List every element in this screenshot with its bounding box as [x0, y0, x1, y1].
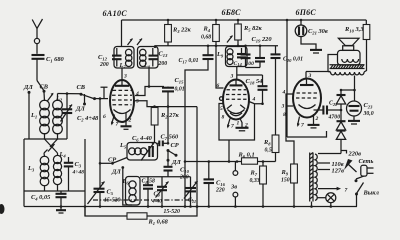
svg-text:3: 3 — [230, 74, 234, 80]
wire ДЛ contact down — [28, 94, 30, 140]
svg-text:4: 4 — [252, 97, 256, 103]
svg-text:4: 4 — [282, 90, 286, 96]
switch SA2 (СВ/ДЛ) — [75, 84, 96, 113]
svg-text:C7 560: C7 560 — [161, 134, 180, 142]
svg-text:C1 680: C1 680 — [46, 56, 65, 64]
svg-text:R1 0,68: R1 0,68 — [148, 219, 169, 227]
svg-text:C4 0,05: C4 0,05 — [31, 194, 51, 202]
wire coil box top — [24, 138, 67, 140]
capacitor C4 — [31, 191, 67, 213]
band crossover wires — [44, 139, 58, 153]
oscillator box L5 C6 — [127, 143, 158, 161]
svg-text:7: 7 — [345, 188, 348, 194]
power transformer core — [310, 153, 313, 208]
svg-text:7: 7 — [116, 122, 119, 128]
coil L7 — [119, 49, 132, 69]
svg-text:2: 2 — [244, 123, 248, 129]
node dot C2 top — [66, 92, 69, 95]
svg-text:C14: C14 — [234, 61, 243, 67]
coil L2 — [53, 94, 63, 140]
electrolytic C21 — [295, 19, 328, 53]
svg-text:0,01: 0,01 — [175, 87, 185, 93]
coil L4 — [53, 151, 66, 191]
wire L2 top node — [58, 93, 82, 95]
svg-text:R3 22к: R3 22к — [172, 27, 192, 35]
trimmer capacitor C3 — [64, 157, 84, 191]
edge smudge — [0, 204, 5, 214]
resistor R6 — [237, 152, 276, 165]
capacitor C20 — [271, 46, 304, 63]
pickup jacks Зв — [230, 162, 238, 208]
wire СВ contact to L1 — [43, 93, 46, 102]
svg-text:220в: 220в — [348, 151, 362, 158]
svg-text:5: 5 — [136, 99, 139, 105]
tank box L7 C12 — [114, 47, 134, 69]
capacitor C12 — [98, 48, 122, 68]
voice coil feed wire — [328, 55, 338, 72]
tap 127в — [318, 168, 344, 175]
loudspeaker — [338, 38, 361, 65]
svg-text:200: 200 — [179, 175, 189, 181]
svg-text:4÷48: 4÷48 — [72, 170, 85, 176]
svg-text:15-520: 15-520 — [164, 209, 181, 215]
tube V3 6П6С — [281, 72, 322, 129]
capacitor C19a — [241, 36, 273, 68]
variable capacitor C5 — [88, 182, 121, 208]
wire V3 grid to R9 — [286, 94, 294, 164]
resistor R9 — [281, 164, 298, 208]
svg-text:6: 6 — [103, 114, 106, 120]
svg-text:6А10С: 6А10С — [103, 9, 128, 18]
svg-text:100: 100 — [246, 61, 255, 67]
svg-text:7: 7 — [231, 124, 234, 130]
voltage selector arrow — [344, 159, 353, 170]
wire V1 pin4 to C15 — [135, 87, 164, 96]
capacitor C13 — [149, 48, 169, 67]
svg-text:1: 1 — [237, 121, 240, 127]
screen node wire — [216, 45, 278, 47]
svg-text:220: 220 — [215, 188, 225, 194]
wire V2 pin4 — [249, 102, 263, 104]
capacitor C14 — [234, 48, 255, 67]
svg-text:ДЛ: ДЛ — [75, 106, 85, 113]
switch Выкл — [355, 176, 380, 206]
resistor R3 — [165, 19, 192, 46]
output transformer core — [330, 65, 365, 69]
svg-text:C2 4÷48: C2 4÷48 — [77, 115, 99, 123]
tuning slash of L8 — [137, 39, 142, 46]
switch СР (osc right) — [167, 142, 182, 166]
coil L5 — [119, 142, 147, 155]
svg-text:8: 8 — [222, 115, 225, 121]
svg-text:2: 2 — [128, 118, 132, 124]
svg-text:R5 82к: R5 82к — [243, 25, 263, 33]
wire tank2 bottom to C15 — [148, 68, 150, 87]
svg-text:Сеть: Сеть — [359, 158, 374, 165]
coil L6 — [122, 178, 137, 202]
switch СР (osc left) — [99, 157, 127, 165]
wire V3 anode to output transformer — [306, 71, 331, 73]
coil L8 — [140, 49, 151, 69]
svg-text:5: 5 — [220, 106, 223, 112]
screen feed vertical — [286, 20, 288, 137]
rectifier diode VD2 — [336, 121, 345, 130]
capacitor C15 — [148, 77, 185, 143]
svg-text:C20 0,01: C20 0,01 — [283, 57, 303, 64]
IF tank box L9 C14 — [226, 47, 248, 67]
antenna W1 — [32, 19, 42, 54]
svg-text:ДЛ: ДЛ — [23, 84, 33, 91]
resistor R10 — [344, 20, 370, 72]
capacitor C1 — [32, 55, 65, 64]
svg-text:200: 200 — [158, 61, 168, 67]
capacitor C10 — [164, 160, 190, 181]
capacitor C19b — [255, 45, 265, 68]
wire anode node to C18 — [237, 74, 263, 76]
svg-text:0,33: 0,33 — [250, 178, 260, 184]
capacitor C7 — [158, 134, 180, 147]
svg-text:3: 3 — [281, 104, 285, 110]
wire tank1 to tube V1 anode — [121, 68, 123, 80]
wire tuning line down to C5 — [99, 99, 101, 188]
svg-text:2: 2 — [315, 116, 319, 122]
svg-text:30,0: 30,0 — [363, 111, 374, 117]
wire V2 cathode stem to detector — [228, 140, 230, 162]
coil L1 — [30, 100, 49, 139]
svg-text:СР: СР — [171, 142, 179, 149]
resistor R7 — [250, 162, 267, 208]
left frame wire — [23, 139, 25, 207]
wire coil box bottom — [24, 190, 85, 192]
gang coupling dash line — [93, 199, 193, 201]
svg-text:4700: 4700 — [328, 115, 341, 121]
resistor R8 — [263, 58, 279, 162]
wire bus corner to tank1 — [121, 20, 123, 47]
tuning slash of L7 — [128, 39, 133, 46]
svg-text:0,5: 0,5 — [265, 148, 272, 154]
svg-text:ДЛ: ДЛ — [171, 159, 181, 166]
chassis bus (bottom) — [24, 206, 357, 208]
tuning slash of L9 — [227, 36, 233, 43]
wire tank2 top to screen node — [155, 45, 216, 48]
coil L3 — [27, 153, 49, 191]
svg-text:200: 200 — [99, 62, 109, 68]
svg-text:3: 3 — [123, 74, 127, 80]
svg-text:C21 30в: C21 30в — [308, 28, 328, 36]
svg-text:C6 4-40: C6 4-40 — [132, 135, 153, 143]
right frame wire — [84, 139, 86, 216]
svg-text:Выкл: Выкл — [363, 190, 380, 197]
svg-text:ДЛ: ДЛ — [111, 169, 121, 176]
resistor R4 — [201, 19, 224, 88]
svg-text:7: 7 — [301, 123, 304, 129]
capacitor C22 — [314, 101, 343, 121]
wire tank to V2 anode — [236, 67, 238, 80]
tank box L8 C13 — [138, 47, 159, 69]
coil box L6 — [126, 177, 141, 206]
resistor R2 — [151, 108, 179, 143]
capacitor C16 — [204, 160, 226, 208]
resistor R1 — [127, 213, 169, 226]
svg-text:0,68: 0,68 — [201, 35, 211, 41]
tube V2 6Б8С — [217, 80, 256, 131]
wire switch to tube grid — [95, 98, 109, 100]
wire C1 to band switch — [36, 59, 38, 81]
power transformer winding — [315, 154, 317, 200]
svg-text:6: 6 — [217, 83, 220, 89]
tube V1 6А10С — [103, 80, 139, 129]
heater wire with arrow 7 — [318, 187, 348, 194]
detector load wire — [185, 161, 237, 163]
coil L9 — [216, 49, 233, 65]
trimmer C9 — [151, 177, 169, 208]
svg-text:C18 54: C18 54 — [246, 78, 263, 86]
R1 return loop wire — [85, 207, 127, 217]
band switch SA1 (ДЛ/СВ) — [23, 81, 49, 94]
rectifier diode VD3 — [336, 131, 345, 154]
capacitor C17 — [179, 45, 214, 208]
wire V3 pin5 stub — [287, 105, 293, 107]
cathode bias wire — [287, 131, 327, 137]
svg-text:6Б8С: 6Б8С — [222, 8, 242, 17]
svg-text:127в: 127в — [332, 168, 345, 175]
svg-text:4-40: 4-40 — [151, 199, 162, 205]
wire V2 pin5 loop — [219, 104, 255, 141]
svg-text:C17 0,01: C17 0,01 — [179, 58, 199, 65]
resistor R5 — [235, 19, 263, 47]
tap 220в — [318, 151, 361, 158]
svg-text:СВ: СВ — [77, 84, 86, 91]
trimmer C6 — [132, 135, 155, 161]
pilot lamp — [317, 193, 336, 208]
svg-text:Зв: Зв — [230, 184, 237, 191]
electrolytic C23 — [340, 76, 374, 125]
svg-text:6П6С: 6П6С — [296, 8, 317, 17]
wire IF2 node — [246, 67, 261, 69]
tuning slash of L2 — [47, 94, 53, 102]
tap 110в — [318, 161, 344, 168]
svg-text:C19 220: C19 220 — [252, 36, 273, 44]
grid cap T of tube V1 — [101, 87, 108, 98]
svg-text:C11: C11 — [188, 198, 196, 205]
variable capacitor C11 — [184, 177, 198, 208]
capacitor C8 — [142, 177, 156, 208]
top supply bus — [122, 19, 367, 21]
svg-text:3: 3 — [308, 73, 312, 79]
wire V1 pin5 to AVC node — [135, 101, 197, 107]
switch ДЛ contact (osc left) — [111, 166, 132, 205]
rectifier diode VD1 — [336, 90, 345, 121]
osc common wire — [140, 176, 191, 178]
trimmer capacitor C2 — [61, 94, 100, 139]
output transformer primary — [328, 72, 364, 75]
svg-text:150: 150 — [281, 178, 290, 184]
svg-text:R2 27к: R2 27к — [160, 112, 180, 120]
capacitor C18 — [246, 75, 268, 104]
mains plug Сеть — [359, 158, 374, 176]
